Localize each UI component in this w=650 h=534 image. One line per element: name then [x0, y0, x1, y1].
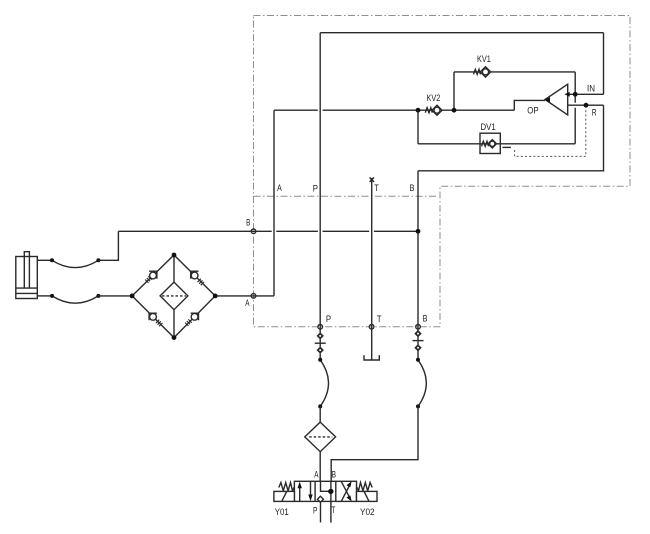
- svg-text:B: B: [246, 218, 250, 229]
- valve cell dividers: [315, 481, 336, 501]
- node KV2 right junction: [452, 108, 457, 113]
- valve T stub: [330, 501, 332, 522]
- wire A to KV2 horizontal (gap at P crossing): [274, 109, 418, 111]
- block divider (dash-dot): [254, 195, 439, 197]
- pilot line DV1 to R (dotted): [515, 107, 586, 156]
- node bridge top: [172, 253, 177, 258]
- svg-text:R: R: [592, 108, 597, 119]
- cylinder rod: [24, 252, 29, 288]
- coupling B lower: [415, 345, 420, 350]
- wire T line: [371, 178, 373, 360]
- hose P (arc): [320, 360, 328, 407]
- valve cell3 cross arrow up: [341, 481, 352, 501]
- node cyl bottom right: [96, 294, 100, 298]
- svg-text:B: B: [423, 314, 428, 325]
- wire B work line horizontal (gaps at A,P,T crossings): [118, 230, 418, 232]
- hose cylinder bottom: [52, 296, 98, 303]
- plug x-mark on T line: [370, 178, 374, 182]
- svg-text:A: A: [245, 298, 250, 309]
- wire B down to valve: [331, 406, 418, 481]
- port B on block left edge: [251, 229, 256, 234]
- wire IN horizontal: [568, 93, 604, 95]
- wire R return down and left: [418, 105, 604, 171]
- svg-text:B: B: [410, 183, 415, 194]
- node hose B top: [416, 358, 420, 362]
- check valve bridge UL: [145, 271, 157, 283]
- node cyl bottom left: [50, 294, 54, 298]
- svg-text:P: P: [313, 183, 318, 194]
- svg-text:B: B: [332, 470, 336, 481]
- valve right solenoid diagonal: [364, 492, 369, 502]
- node valve cell2 junction: [328, 489, 333, 494]
- wire P supply rail top: [320, 32, 603, 34]
- wire cylinder bottom port: [37, 295, 52, 297]
- svg-text:KV2: KV2: [427, 93, 441, 104]
- valve cell1 down arrow: [308, 481, 312, 501]
- manifold block boundary (dash-dot): [254, 16, 631, 327]
- coupling P lower: [318, 347, 323, 352]
- valve left spring: [279, 483, 295, 491]
- wire KV2 to OP input with step: [418, 100, 545, 110]
- wire R horizontal: [568, 104, 604, 106]
- bridge edges: [132, 255, 215, 338]
- wire A port to bridge: [215, 295, 274, 297]
- wire KV2 right leg up: [453, 72, 455, 110]
- directional valve body: [294, 481, 356, 501]
- valve P stub: [320, 501, 322, 522]
- svg-text:OP: OP: [527, 105, 538, 116]
- hose cylinder top: [52, 260, 98, 267]
- svg-text:KV1: KV1: [477, 54, 491, 65]
- cylinder piston: [16, 288, 38, 293]
- wire KV1 line: [454, 71, 575, 73]
- check valve bridge UR: [191, 271, 204, 285]
- svg-text:Y01: Y01: [275, 507, 289, 518]
- bridge center vertical bottom: [173, 310, 175, 338]
- throttle valve KV2: [425, 105, 442, 115]
- wire P vertical main: [319, 33, 321, 360]
- port T on block bottom: [369, 325, 374, 330]
- wire cylinder bottom to bridge: [98, 295, 132, 297]
- valve left solenoid diagonal: [282, 492, 287, 502]
- valve cell2 BT vertical: [330, 481, 332, 501]
- op-amp OP triangle: [545, 84, 568, 115]
- node KV2 left junction: [416, 108, 421, 113]
- DV1 adjustment dash: [503, 146, 512, 148]
- svg-text:Y02: Y02: [360, 507, 375, 518]
- bridge center vertical top: [173, 255, 175, 282]
- node cyl top left: [50, 258, 54, 262]
- node B work junction: [416, 229, 421, 234]
- coupling P upper: [318, 333, 323, 338]
- svg-text:A: A: [277, 183, 282, 194]
- wire cylinder top port: [37, 259, 52, 261]
- coupling B bar: [413, 340, 424, 342]
- svg-text:T: T: [331, 505, 335, 516]
- pressure valve DV1 box: [480, 133, 500, 153]
- svg-text:A: A: [314, 470, 319, 481]
- check valve bridge LL: [149, 313, 162, 326]
- port A on block left edge: [251, 294, 256, 299]
- op-amp apex arrow: [545, 97, 550, 102]
- valve right solenoid box: [357, 491, 378, 501]
- coupling P bar: [315, 342, 326, 344]
- node hose P bottom: [318, 404, 322, 408]
- node hose P top: [318, 358, 322, 362]
- valve cell3 cross arrow down: [341, 481, 352, 501]
- node R junction: [584, 103, 589, 108]
- valve right spring: [357, 483, 373, 491]
- tank symbol: [364, 355, 379, 360]
- wire IN drop from rail: [603, 33, 605, 95]
- node cyl top right: [96, 258, 100, 262]
- wire cylinder top to B line: [98, 231, 118, 260]
- node IN junction: [573, 92, 578, 97]
- wire KV1 down to IN node (gap at R crossing): [574, 72, 576, 144]
- valve cell1 up arrow: [298, 482, 302, 502]
- svg-text:P: P: [326, 314, 331, 325]
- svg-text:DV1: DV1: [481, 122, 496, 133]
- op-amp IN arrow: [565, 92, 570, 97]
- pressure valve DV1 symbol: [482, 140, 497, 148]
- svg-text:T: T: [377, 314, 382, 325]
- wire B vertical (R return to B port): [417, 171, 419, 360]
- valve cell2 P check diamond: [317, 496, 323, 502]
- node bridge bottom: [172, 335, 177, 340]
- hose B (arc): [418, 360, 426, 407]
- cylinder body: [16, 257, 38, 299]
- node bridge right: [213, 294, 218, 299]
- wire P to filter: [319, 406, 321, 422]
- wire A vertical: [273, 110, 275, 296]
- port B on block bottom: [416, 325, 421, 330]
- valve left solenoid box: [274, 491, 295, 501]
- svg-text:IN: IN: [587, 84, 595, 95]
- throttle valve KV1: [474, 67, 491, 77]
- node hose B bottom: [416, 404, 420, 408]
- valve cell2 A to BT link: [321, 481, 331, 491]
- bridge center orifice diamond: [160, 282, 188, 310]
- wire KV2 left leg down to DV1: [417, 110, 419, 144]
- wire filter to valve A: [319, 452, 321, 482]
- filter: [305, 422, 336, 452]
- svg-text:P: P: [313, 505, 317, 516]
- port P on block bottom: [318, 325, 323, 330]
- svg-text:T: T: [374, 183, 379, 194]
- check valve bridge LR: [185, 313, 198, 326]
- coupling B upper: [415, 331, 420, 336]
- node bridge left: [130, 294, 135, 299]
- wire DV1 line: [418, 143, 575, 145]
